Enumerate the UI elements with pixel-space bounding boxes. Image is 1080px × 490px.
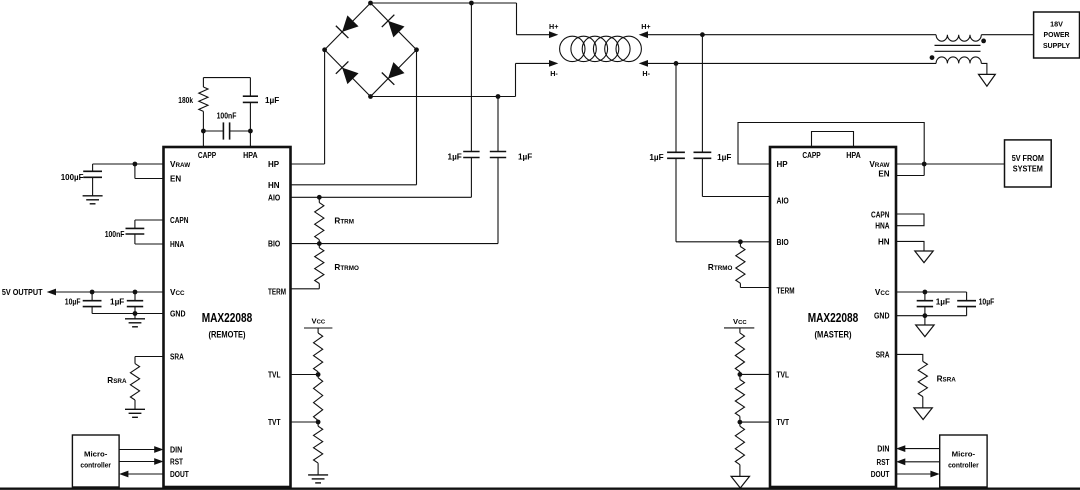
svg-text:CAPN: CAPN xyxy=(170,216,189,225)
resistor RTRMO (remote) xyxy=(315,244,324,289)
svg-text:TVL: TVL xyxy=(777,371,790,380)
svg-text:DIN: DIN xyxy=(877,445,889,454)
node junction HPA/100nF xyxy=(248,129,253,134)
svg-text:POWER: POWER xyxy=(1044,30,1071,39)
capacitor 1uF (line, left pair B) xyxy=(490,97,506,244)
svg-text:DOUT: DOUT xyxy=(871,470,890,479)
node junction VCC/1uF xyxy=(133,290,138,295)
svg-text:TVT: TVT xyxy=(268,418,281,427)
svg-text:HNA: HNA xyxy=(170,240,184,249)
node junction VCC/1uF (master) xyxy=(923,290,928,295)
svg-text:EN: EN xyxy=(878,170,889,179)
transformer core xyxy=(935,45,981,51)
wire HN to bridge right node xyxy=(291,50,417,185)
node junction bottom wire / 1uF xyxy=(496,94,501,99)
ground (master ladder, triangle) xyxy=(731,476,749,488)
transformer secondary winding (bottom) xyxy=(936,57,981,63)
wire VRAW xyxy=(93,163,164,165)
svg-text:1µF: 1µF xyxy=(649,153,663,162)
svg-text:SYSTEM: SYSTEM xyxy=(1013,165,1043,174)
svg-text:HPA: HPA xyxy=(243,151,258,160)
arrow H+ (left, into line) xyxy=(549,31,558,38)
node junction GND/1uF (master) xyxy=(923,313,928,318)
wire EN to VRAW xyxy=(135,164,164,179)
ground (transformer, triangle) xyxy=(979,74,996,86)
svg-text:CAPP: CAPP xyxy=(198,151,217,160)
capacitor 10uF (VCC master) xyxy=(957,292,976,316)
wire DIN with arrow into U1 xyxy=(119,446,163,453)
svg-text:DIN: DIN xyxy=(170,446,182,455)
wire GND xyxy=(92,313,163,315)
svg-text:18V: 18V xyxy=(1050,19,1063,28)
svg-text:RTRM: RTRM xyxy=(334,216,354,225)
resistor divider top (master) xyxy=(735,328,744,375)
svg-text:CAPN: CAPN xyxy=(871,211,890,220)
svg-text:H-: H- xyxy=(550,69,558,78)
wire transformer top to 18V supply xyxy=(981,34,1033,36)
wire GND (master) xyxy=(896,315,967,317)
svg-text:5V FROM: 5V FROM xyxy=(1012,154,1044,163)
svg-text:SUPPLY: SUPPLY xyxy=(1043,41,1070,50)
ground (100uF) xyxy=(83,195,103,197)
svg-text:H-: H- xyxy=(642,69,650,78)
svg-text:RST: RST xyxy=(877,458,890,467)
svg-text:100nF: 100nF xyxy=(217,112,237,121)
svg-text:controller: controller xyxy=(948,460,979,469)
figure bottom border line xyxy=(0,488,1080,490)
ground (remote ladder) xyxy=(308,474,328,476)
resistor RTRMO (master) xyxy=(736,242,745,288)
svg-text:HN: HN xyxy=(878,237,890,246)
resistor RSRA (master) xyxy=(918,361,927,396)
svg-text:HNA: HNA xyxy=(875,222,889,231)
svg-text:H+: H+ xyxy=(549,22,558,31)
svg-text:10µF: 10µF xyxy=(979,298,995,307)
svg-text:1µF: 1µF xyxy=(265,96,279,105)
svg-text:1µF: 1µF xyxy=(518,153,532,162)
box 18V POWER SUPPLY xyxy=(1034,12,1080,58)
svg-text:H+: H+ xyxy=(641,22,650,31)
svg-text:1µF: 1µF xyxy=(717,153,731,162)
wire DIN with arrow into U2 xyxy=(896,445,940,452)
svg-text:5V OUTPUT: 5V OUTPUT xyxy=(2,287,43,297)
wire TVL (master) xyxy=(740,373,770,375)
svg-text:EN: EN xyxy=(170,175,181,184)
node junction VRAW/EN/HP loop xyxy=(922,162,927,167)
IC U1 MAX22088 (REMOTE) xyxy=(164,147,291,487)
svg-text:CAPP: CAPP xyxy=(802,151,821,160)
wire DOUT with arrow into microcontroller xyxy=(119,471,163,478)
capacitor 1uF (line, left pair A) xyxy=(463,3,479,197)
wire bridge bottom to H- feed xyxy=(371,63,550,96)
wire RST with arrow into U2 xyxy=(896,458,940,465)
svg-text:Micro-: Micro- xyxy=(84,449,108,458)
resistor divider middle (master) xyxy=(735,374,744,422)
wire right pair B to AIO (master) xyxy=(702,196,770,198)
capacitor 1uF (HPA to top) xyxy=(243,78,258,131)
node junction H+/1uF (right pair B) xyxy=(700,32,705,37)
wire CAPN-HNA jumper (master) xyxy=(896,214,924,226)
wire TERM (master) xyxy=(740,287,770,289)
wire VCC rail bar (master ladder) xyxy=(724,327,754,329)
wire H+ right run to transformer xyxy=(648,34,936,36)
node junction VRAW/EN xyxy=(133,162,138,167)
wire bridge top to H+ feed xyxy=(371,3,550,35)
diode D2 (bridge top-right, cathode to top node) xyxy=(371,3,417,50)
svg-text:(REMOTE): (REMOTE) xyxy=(209,330,246,341)
svg-text:SRA: SRA xyxy=(170,353,184,362)
wire CAPP stub to top network xyxy=(202,131,204,147)
wire BIO xyxy=(291,243,499,245)
svg-text:TERM: TERM xyxy=(268,288,286,297)
node bridge right xyxy=(414,47,419,52)
node junction GND/1uF xyxy=(133,311,138,316)
capacitor 100nF (CAPN-HNA) xyxy=(126,220,145,244)
svg-text:HN: HN xyxy=(268,181,280,190)
svg-text:RTRMO: RTRMO xyxy=(334,263,359,272)
wire VCC (master) xyxy=(896,291,967,293)
svg-text:HPA: HPA xyxy=(846,151,861,160)
box 5V FROM SYSTEM xyxy=(1005,140,1052,187)
svg-text:10µF: 10µF xyxy=(65,298,81,307)
diode D4 (bridge bottom-right, cathode to bottom node) xyxy=(371,50,417,97)
svg-text:1µF: 1µF xyxy=(448,153,462,162)
inductor: network line coil xyxy=(560,36,642,61)
resistor RSRA (remote) xyxy=(130,364,139,400)
resistor divider bottom (TVT to GND) xyxy=(314,422,323,475)
capacitor 100uF (VRAW) xyxy=(83,164,102,196)
IC U2 MAX22088 (MASTER) xyxy=(770,147,896,487)
svg-text:AIO: AIO xyxy=(777,197,789,206)
capacitor 1uF (VCC master) xyxy=(917,292,933,316)
ground (GND master, triangle) xyxy=(916,316,934,337)
wire H- right run to transformer xyxy=(648,62,936,64)
wire DOUT with arrow into microcontroller (master) xyxy=(896,471,940,478)
svg-text:180k: 180k xyxy=(178,96,193,105)
svg-text:BIO: BIO xyxy=(268,239,280,248)
node bridge bottom xyxy=(368,94,373,99)
svg-text:MAX22088: MAX22088 xyxy=(202,311,253,325)
wire EN (master) xyxy=(896,175,924,177)
svg-text:Micro-: Micro- xyxy=(952,449,976,458)
ground (GND pin) xyxy=(125,314,145,327)
diode D3 (bridge bottom-left, cathode to left node) xyxy=(325,50,371,97)
svg-text:BIO: BIO xyxy=(777,238,789,247)
svg-text:RSRA: RSRA xyxy=(107,376,127,385)
node junction CAPP/100nF xyxy=(201,129,206,134)
resistor divider bottom (master) xyxy=(735,422,744,476)
svg-text:TERM: TERM xyxy=(777,287,795,296)
node junction BIO/RTRM/RTRMO xyxy=(317,241,322,246)
ground (HN master, triangle) xyxy=(915,251,933,263)
arrow H- (right, into line) xyxy=(639,60,648,67)
node junction VCC/10uF xyxy=(90,290,95,295)
svg-text:VRAW: VRAW xyxy=(869,160,889,169)
capacitor 1uF (line, right pair A) xyxy=(667,63,685,241)
wire TERM xyxy=(291,288,320,290)
wire right pair A to BIO (master) xyxy=(676,241,770,243)
capacitor 1uF (line, right pair B) xyxy=(694,35,712,197)
svg-text:(MASTER): (MASTER) xyxy=(815,330,852,341)
transformer primary winding (top) xyxy=(936,35,981,42)
wire HPA stub to top network xyxy=(249,131,251,147)
ground (RSRA) xyxy=(125,400,145,417)
svg-text:RSRA: RSRA xyxy=(937,375,957,384)
wire VCC rail bar (remote ladder) xyxy=(304,327,332,329)
wire top of 180k / 1uF loop xyxy=(203,77,250,79)
svg-text:HP: HP xyxy=(268,160,280,169)
resistor 180k (CAPP to top) xyxy=(199,78,208,131)
svg-text:GND: GND xyxy=(874,312,890,321)
svg-text:VRAW: VRAW xyxy=(170,160,190,169)
wire SRA xyxy=(135,357,164,364)
capacitor 100nF (series CAPP-HPA) xyxy=(203,122,250,139)
node junction TVT xyxy=(316,420,321,425)
wire RST with arrow into U1 xyxy=(119,458,163,465)
svg-text:TVL: TVL xyxy=(268,371,281,380)
node junction top wire / 1uF xyxy=(469,1,474,6)
svg-text:GND: GND xyxy=(170,310,186,319)
phase dot transformer bottom xyxy=(930,55,935,60)
node junction TVL xyxy=(316,372,321,377)
wire CAPN xyxy=(135,219,164,221)
capacitor 1uF (VCC) xyxy=(127,292,143,314)
diode D1 (bridge top-left, cathode to left node) xyxy=(325,3,371,50)
svg-text:TVT: TVT xyxy=(777,418,790,427)
resistor RTRM xyxy=(315,197,324,243)
wire TVL xyxy=(291,374,319,376)
wire HNA xyxy=(135,243,164,245)
node junction BIO/RTRMO (master) xyxy=(738,239,743,244)
wire VRAW to 5V box xyxy=(896,163,1005,165)
wire HP to bridge left node xyxy=(291,50,325,164)
svg-text:VCC: VCC xyxy=(170,288,185,297)
svg-text:SRA: SRA xyxy=(876,351,890,360)
phase dot transformer top xyxy=(981,39,986,44)
microcontroller box (remote) xyxy=(72,435,119,487)
wire VCC output xyxy=(56,291,164,293)
capacitor 10uF (VCC) xyxy=(83,292,102,314)
svg-text:100µF: 100µF xyxy=(61,173,84,182)
svg-text:MAX22088: MAX22088 xyxy=(808,311,859,325)
wire TVT xyxy=(291,421,319,423)
svg-text:RST: RST xyxy=(170,458,183,467)
node junction H-/1uF (right pair A) xyxy=(674,61,679,66)
svg-text:RTRMO: RTRMO xyxy=(708,263,733,272)
wire HP loop over top (master) xyxy=(738,123,924,176)
arrow H+ (right, into line) xyxy=(639,31,648,38)
wire TVT (master) xyxy=(740,421,770,423)
svg-text:100nF: 100nF xyxy=(105,230,125,239)
arrow H- (left, into line) xyxy=(549,60,558,67)
node bridge left xyxy=(322,47,327,52)
wire transformer bottom to ground xyxy=(981,63,987,74)
svg-text:controller: controller xyxy=(80,460,111,469)
svg-text:1µF: 1µF xyxy=(110,298,124,307)
microcontroller box (master) xyxy=(940,435,987,487)
arrow 5V OUTPUT xyxy=(47,289,56,296)
wire SRA (master) xyxy=(896,354,923,361)
wire HN to ground (master) xyxy=(896,241,924,251)
resistor divider middle (TVL to TVT) xyxy=(314,375,323,423)
resistor divider top (VCC to TVL) xyxy=(314,328,323,375)
node junction TVL (master) xyxy=(738,372,743,377)
svg-text:AIO: AIO xyxy=(268,193,280,202)
node junction AIO/RTRM xyxy=(317,195,322,200)
node bridge top xyxy=(368,1,373,6)
ground (RSRA master, triangle) xyxy=(914,397,932,420)
svg-text:DOUT: DOUT xyxy=(170,470,189,479)
svg-text:HP: HP xyxy=(777,160,789,169)
wire AIO xyxy=(291,196,472,198)
node junction TVT (master) xyxy=(738,420,743,425)
svg-text:VCC: VCC xyxy=(875,288,890,297)
wire CAPP-HPA jumper (master) xyxy=(812,132,854,148)
svg-text:1µF: 1µF xyxy=(936,298,950,307)
